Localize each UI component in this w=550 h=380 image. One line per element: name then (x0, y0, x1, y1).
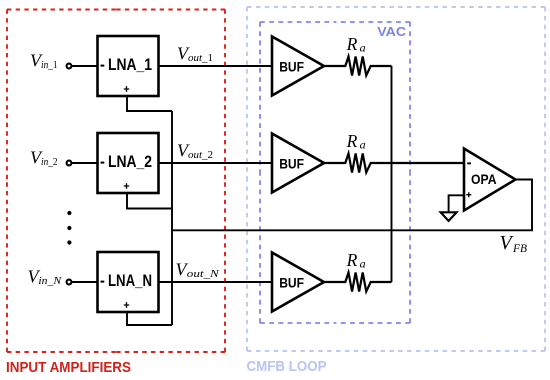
label Vout_2 (177, 141, 213, 162)
label VFB (500, 232, 528, 255)
CMFB loop boundary box (247, 7, 545, 351)
label Ra row 1 (346, 34, 366, 54)
amplifier LNA_N (98, 252, 159, 312)
input amplifiers boundary box (7, 10, 225, 353)
buffer BUF row 3 (272, 253, 324, 312)
svg-text:out_1: out_1 (188, 52, 213, 64)
svg-text:in_1: in_1 (41, 59, 58, 71)
svg-text:R: R (346, 250, 358, 270)
svg-text:BUF: BUF (279, 274, 304, 290)
feedback bus to LNA plus inputs (171, 111, 173, 325)
ellipsis dots (67, 211, 71, 245)
label Vout_N (176, 260, 220, 281)
op-amp OPA (464, 149, 516, 211)
wire LNA_N plus feedback (127, 312, 172, 325)
svg-text:out_2: out_2 (188, 149, 213, 161)
label Ra row 3 (346, 250, 366, 270)
node Vin_2 terminal (67, 161, 72, 166)
svg-text:out_N: out_N (187, 268, 220, 280)
wire Vin_N to LNA_N (72, 281, 98, 283)
svg-text:BUF: BUF (279, 155, 304, 171)
node Vin_N terminal (67, 280, 72, 285)
svg-text:LNA_2: LNA_2 (108, 152, 152, 171)
label Vin_N (28, 267, 62, 288)
svg-text:a: a (360, 137, 366, 151)
wire OPA output feedback line (172, 180, 532, 231)
label Vin_1 (30, 51, 58, 72)
wire Vin_2 to LNA_2 (72, 162, 98, 164)
VAC boundary box (260, 22, 410, 323)
label Vin_2 (30, 148, 58, 169)
wire Vin_1 to LNA_1 (72, 65, 98, 67)
amplifier LNA_2 (98, 133, 159, 193)
amplifier LNA_1 (98, 36, 159, 96)
label Ra row 2 (346, 131, 366, 151)
node Vin_1 terminal (67, 64, 72, 69)
buffer BUF row 2 (272, 134, 324, 193)
svg-text:in_N: in_N (38, 275, 61, 287)
ground (441, 212, 457, 221)
wire LNA_2 output (159, 162, 273, 164)
svg-text:in_2: in_2 (41, 156, 58, 168)
wire LNA_1 output (159, 65, 273, 67)
wire LNA_2 plus feedback (127, 193, 172, 209)
svg-text:LNA_1: LNA_1 (108, 55, 152, 74)
svg-text:a: a (360, 256, 366, 270)
svg-text:OPA: OPA (471, 171, 497, 187)
wire LNA_N output (159, 281, 273, 283)
averaging bus wire (391, 66, 393, 282)
label Vout_1 (177, 44, 213, 65)
wire LNA_1 plus feedback (127, 96, 172, 111)
resistor Ra row 2 (324, 154, 464, 173)
resistor Ra row 3 (324, 273, 392, 292)
resistor Ra row 1 (324, 57, 392, 76)
svg-text:R: R (346, 34, 358, 54)
svg-text:BUF: BUF (279, 58, 304, 74)
buffer BUF row 1 (272, 37, 324, 96)
wire OPA plus input to ground (449, 195, 464, 212)
svg-text:VAC: VAC (377, 24, 406, 39)
svg-text:CMFB LOOP: CMFB LOOP (247, 359, 327, 375)
svg-text:a: a (360, 40, 366, 54)
svg-text:LNA_N: LNA_N (108, 271, 152, 290)
svg-text:R: R (346, 131, 358, 151)
svg-text:FB: FB (512, 243, 527, 255)
svg-text:INPUT AMPLIFIERS: INPUT AMPLIFIERS (6, 360, 131, 376)
